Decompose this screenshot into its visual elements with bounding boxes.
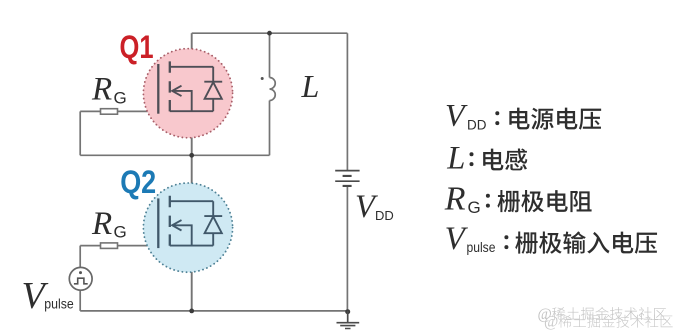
wire Q2 drain to mid rail (191, 155, 193, 201)
wire Q1 source to mid rail (191, 111, 193, 155)
wire pulse source to bottom rail (79, 290, 81, 311)
Q2 body arrow (172, 225, 192, 245)
wire left rail to pulse source (79, 246, 81, 268)
Q2 gate bar (157, 198, 159, 248)
wire top rail (192, 32, 348, 34)
svg-text:L: L (301, 68, 320, 104)
svg-text:@: @ (544, 314, 558, 331)
svg-text:pulse: pulse (44, 296, 74, 312)
node junction bottom right (ground) (345, 309, 350, 314)
svg-text:pulse: pulse (467, 240, 496, 255)
wire Q2 gate (left segment) (80, 245, 100, 247)
svg-text:R: R (444, 181, 466, 218)
Q2 drain connection (170, 200, 213, 202)
wire left rail Q1 gate loop (79, 111, 81, 155)
node junction bottom (Q2 source) (189, 309, 194, 314)
resistor RG (Q1 gate) (101, 109, 118, 115)
Q1 body diode (204, 67, 222, 111)
wire mid rail (80, 154, 269, 156)
transistor Q2 (143, 183, 232, 272)
svg-text:Q2: Q2 (120, 164, 156, 200)
svg-text:G: G (114, 88, 127, 107)
wire Q1 drain to top rail (191, 33, 193, 67)
svg-text:DD: DD (375, 208, 394, 223)
svg-text:V: V (445, 221, 469, 257)
Q2 source connection (170, 245, 213, 247)
Q1 drain connection (170, 66, 213, 68)
wire inductor top (269, 33, 271, 77)
Q2 channel dashed line (169, 196, 171, 246)
wire Q2 gate (right segment) (118, 245, 159, 247)
svg-text:R: R (91, 72, 112, 108)
wire inductor bottom (269, 101, 271, 156)
svg-text:R: R (91, 206, 112, 242)
svg-text:DD: DD (467, 117, 487, 132)
svg-text:G: G (468, 198, 481, 217)
wire battery top (346, 33, 348, 170)
svg-text:V: V (445, 97, 468, 133)
inductor polarity dot (261, 77, 264, 80)
wire battery bottom (346, 186, 348, 311)
transistor Q1 (143, 49, 232, 138)
wire Q1 gate (right segment) (118, 110, 159, 112)
pulse source Vpulse (69, 267, 92, 290)
node junction top (inductor tap) (267, 31, 272, 36)
inductor L coil (270, 78, 276, 101)
Q1 gate bar (157, 64, 159, 114)
resistor RG (Q2 gate) (101, 243, 118, 249)
battery VDD (335, 171, 359, 186)
wire bottom rail (80, 310, 348, 312)
wire Q1 gate (left segment) (80, 110, 100, 112)
ground (337, 311, 360, 329)
Q1 source connection (170, 110, 213, 112)
svg-text:L: L (446, 141, 465, 177)
Q1 body arrow (172, 91, 192, 111)
svg-text:G: G (114, 223, 127, 242)
Q2 body diode (204, 201, 222, 245)
wire Q2 source to bottom rail (191, 246, 193, 311)
svg-text:Q1: Q1 (120, 29, 154, 65)
node junction mid (Q1 source / Q2 drain) (189, 153, 194, 158)
Q1 channel dashed line (169, 61, 171, 111)
